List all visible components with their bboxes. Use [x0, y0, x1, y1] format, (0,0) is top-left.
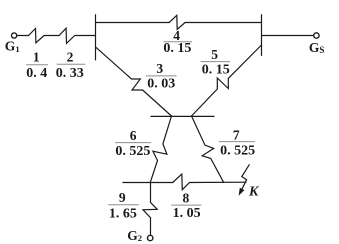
svg-text:7: 7: [233, 128, 240, 143]
reactance X8: [173, 174, 190, 190]
fraction bar label 2: [57, 63, 86, 65]
svg-text:3: 3: [156, 61, 163, 76]
svg-text:0. 525: 0. 525: [115, 144, 150, 159]
fraction bar label 8: [171, 204, 201, 206]
bus A (left node bar): [95, 15, 97, 60]
svg-text:G1: G1: [5, 38, 20, 54]
svg-text:1. 65: 1. 65: [109, 206, 137, 221]
wire G1 to reactance X1: [17, 35, 29, 37]
reactance X5 (bus B to node J2): [192, 45, 262, 116]
terminal G2: [148, 235, 153, 240]
terminal Gs: [314, 33, 319, 38]
svg-text:0. 03: 0. 03: [147, 77, 175, 92]
wire middle node bar J1-J2: [151, 115, 214, 117]
reactance X4: [169, 15, 185, 29]
svg-text:0. 525: 0. 525: [220, 143, 255, 158]
wire X2 to bus A: [75, 35, 96, 37]
wire top line right part: [185, 22, 261, 24]
svg-text:K: K: [248, 184, 260, 199]
svg-text:1. 05: 1. 05: [173, 206, 201, 221]
wire bottom line left part: [123, 182, 173, 184]
svg-text:GS: GS: [309, 40, 325, 55]
svg-text:0. 4: 0. 4: [26, 66, 47, 81]
fraction bar label 9: [108, 204, 139, 206]
reactance X2: [59, 28, 75, 43]
fraction bar label 7: [219, 141, 255, 143]
fraction bar label 4: [164, 41, 193, 43]
wire bus B to terminal Gs: [262, 35, 314, 37]
terminal G1: [12, 33, 17, 38]
reactance X6 (J1 down to node C): [150, 116, 171, 182]
wire X1 to X2: [44, 35, 59, 37]
reactance X9 (node C down to G2): [143, 183, 157, 236]
svg-text:6: 6: [130, 128, 137, 143]
svg-text:0. 15: 0. 15: [163, 41, 191, 56]
svg-text:9: 9: [119, 190, 126, 205]
svg-text:1: 1: [33, 50, 40, 65]
fraction bar label 5: [201, 61, 231, 63]
svg-text:0. 15: 0. 15: [202, 63, 230, 78]
wire top line left part: [96, 22, 170, 24]
reactance X7 (J2 down to fault line): [192, 116, 224, 182]
reactance X3 (bus A to node J1): [96, 47, 172, 116]
wire bottom line right part to fault K: [190, 181, 247, 183]
svg-text:0. 33: 0. 33: [56, 66, 84, 81]
fraction bar label 1: [26, 64, 48, 66]
fraction bar label 3: [146, 75, 177, 77]
svg-text:8: 8: [183, 191, 190, 206]
fault lightning bolt K: [241, 165, 249, 191]
svg-text:G2: G2: [127, 228, 142, 243]
reactance X1: [29, 29, 45, 43]
svg-text:5: 5: [211, 47, 218, 62]
svg-text:2: 2: [67, 49, 74, 64]
fraction bar label 6: [115, 142, 151, 144]
bus B (right node bar): [261, 15, 263, 56]
fault arrowhead: [239, 188, 244, 194]
